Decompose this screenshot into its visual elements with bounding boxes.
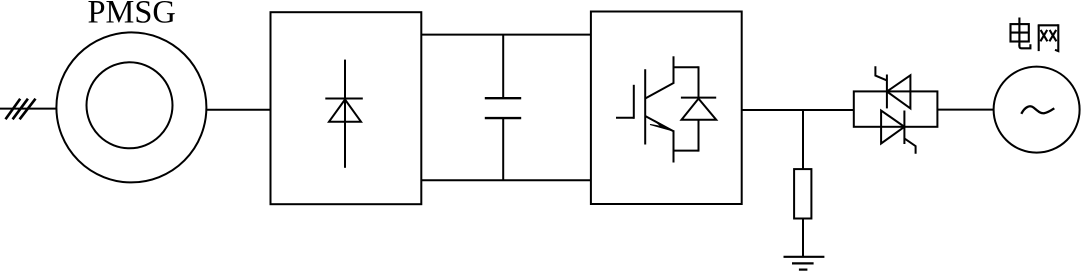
IGBT body bar bbox=[644, 69, 646, 144]
IGBT antiparallel diode D2 bbox=[674, 66, 717, 151]
IGBT emitter arrowhead bbox=[651, 121, 673, 131]
DC-link capacitor C1 bbox=[485, 35, 521, 181]
IGBT gate bar bbox=[633, 85, 635, 119]
IGBT emitter lead bbox=[673, 130, 675, 162]
IGBT gate lead bbox=[616, 117, 634, 119]
wire: machine shaft line bbox=[0, 108, 56, 110]
generator PMSG inner circle bbox=[87, 62, 173, 148]
IGBT collector diagonal bbox=[645, 83, 673, 99]
IGBT emitter diagonal bbox=[645, 116, 673, 131]
DC bus bottom wire bbox=[421, 179, 591, 181]
diode anode lead bbox=[698, 120, 700, 152]
wire machine to rectifier bbox=[207, 109, 271, 111]
shaft hatch marks bbox=[6, 99, 36, 120]
wire to dump resistor bbox=[802, 110, 804, 169]
wire collector to diode bbox=[674, 66, 699, 68]
generator PMSG outer circle bbox=[56, 32, 206, 182]
IGBT collector lead bbox=[673, 56, 675, 84]
diode cathode lead bbox=[698, 66, 700, 97]
diode cathode bar bbox=[681, 97, 716, 99]
soft-starter box bbox=[854, 91, 938, 126]
SCR1 cathode bar bbox=[886, 75, 888, 109]
dump resistor R1 bbox=[794, 169, 811, 218]
网 char bbox=[1038, 24, 1059, 51]
inverter box U2 bbox=[591, 12, 742, 205]
SCR1 triangle bbox=[887, 75, 911, 108]
wire emitter to diode bbox=[674, 150, 699, 152]
IGBT transistor Q1 bbox=[616, 56, 674, 162]
thyristor SCR2 (bottom, pointing right) bbox=[881, 111, 916, 154]
wire resistor to ground bbox=[802, 219, 804, 257]
SCR2 triangle bbox=[881, 111, 904, 144]
ground bbox=[784, 257, 825, 270]
SCR2 cathode bar bbox=[903, 111, 905, 145]
label 电网 (drawn strokes) bbox=[1011, 18, 1059, 52]
SCR2 gate bbox=[904, 138, 915, 153]
thyristor SCR1 (top, pointing left) bbox=[875, 66, 910, 108]
wire soft-starter to grid bbox=[937, 109, 993, 111]
grid AC source circle bbox=[994, 67, 1080, 153]
diode triangle bbox=[682, 99, 717, 120]
电 char bbox=[1011, 18, 1031, 49]
wire inverter to soft-starter bbox=[742, 109, 854, 111]
SCR1 gate bbox=[875, 66, 887, 80]
svg-text:PMSG: PMSG bbox=[88, 0, 176, 30]
rectifier diode D1 bbox=[325, 60, 363, 168]
DC bus top wire bbox=[421, 34, 591, 36]
grid sine symbol bbox=[1021, 106, 1054, 114]
rectifier box U1 bbox=[271, 12, 422, 204]
